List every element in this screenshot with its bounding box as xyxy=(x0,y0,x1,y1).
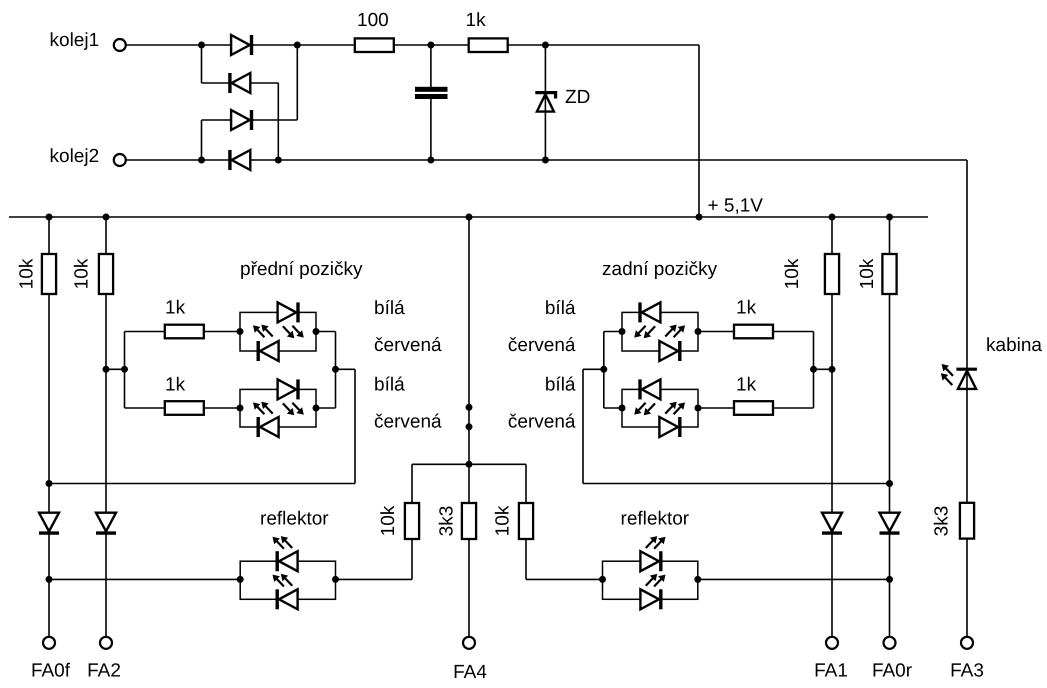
svg-text:červená: červená xyxy=(508,335,576,356)
wire +5V drop from kolej1 line xyxy=(698,45,700,217)
front group2 white LED arrows xyxy=(283,403,304,415)
svg-text:FA2: FA2 xyxy=(87,661,121,682)
wire bridge right vertical outer xyxy=(296,45,298,120)
rear position LED group 1 box xyxy=(622,312,698,351)
svg-text:1k: 1k xyxy=(466,10,487,31)
resistor 10k right of FA4 xyxy=(519,503,533,539)
resistor 10k FA2 pullup xyxy=(99,254,113,294)
wire left 10k bottom lead xyxy=(411,539,413,579)
node rail FA0r xyxy=(886,214,893,221)
node zener top xyxy=(542,42,549,49)
svg-text:ZD: ZD xyxy=(565,87,590,108)
wire front 1k feed vertical xyxy=(124,332,126,409)
diode at FA1 xyxy=(822,513,842,533)
wire bridge row3 xyxy=(202,119,298,121)
svg-text:1k: 1k xyxy=(736,375,757,396)
node bridge out bottom xyxy=(275,157,282,164)
svg-text:FA3: FA3 xyxy=(950,661,984,682)
terminal FA4 xyxy=(463,637,475,649)
wire right reflektor line out xyxy=(698,578,890,580)
bridge diode D3 xyxy=(231,110,251,130)
wire bridge left vertical lower xyxy=(201,120,203,160)
wire left reflektor line out xyxy=(336,578,413,580)
resistor 3k3 at FA4 xyxy=(462,503,476,539)
wire zener branch xyxy=(544,45,546,160)
node rail FA4 xyxy=(466,214,473,221)
front position LED group 2 box xyxy=(240,389,316,427)
wire rear left vertical xyxy=(603,332,605,409)
terminal FA3 xyxy=(961,637,973,649)
svg-text:bílá: bílá xyxy=(374,298,405,319)
wire capacitor lower lead xyxy=(430,99,432,160)
right reflektor LED top xyxy=(640,551,660,571)
wire rear row1 out xyxy=(698,331,814,333)
wire left 10k top lead xyxy=(411,464,413,503)
node zener bottom xyxy=(542,157,549,164)
terminal FA2 xyxy=(100,637,112,649)
svg-text:FA0f: FA0f xyxy=(31,661,71,682)
node rear group1 left xyxy=(619,328,626,335)
node right reflektor left xyxy=(599,576,606,583)
node rear return at FA0r xyxy=(886,480,893,487)
svg-text:bílá: bílá xyxy=(374,375,405,396)
node stub FA1 xyxy=(829,366,836,373)
wire rear stub out xyxy=(583,368,604,370)
rear group1 white LED arrows xyxy=(634,326,655,339)
front red LED row1 xyxy=(258,341,278,361)
wire rear group2 in xyxy=(604,407,622,409)
svg-text:červená: červená xyxy=(374,335,442,356)
wire +5,1V rail xyxy=(9,216,928,218)
right reflektor LED bottom xyxy=(640,589,660,609)
svg-text:10k: 10k xyxy=(72,258,93,289)
node rail supply in xyxy=(696,214,703,221)
wire FA0r vertical xyxy=(889,217,891,637)
wire rear row2 out xyxy=(698,407,814,409)
resistor 100 xyxy=(355,38,394,52)
wire front group2 out xyxy=(316,407,336,409)
left reflektor LED bottom arrows xyxy=(273,574,293,587)
resistor 1k rear row1 xyxy=(734,325,773,339)
terminal FA0r xyxy=(884,637,896,649)
terminal kolej2 xyxy=(114,154,126,166)
rear group1 red LED arrows xyxy=(665,325,685,338)
svg-text:10k: 10k xyxy=(782,258,803,289)
capacitor C plate 2 xyxy=(415,94,448,99)
svg-text:10k: 10k xyxy=(857,258,878,289)
node reflektor line FA0f xyxy=(46,576,53,583)
node front right mid xyxy=(332,366,339,373)
wire FA0f vertical xyxy=(48,217,50,637)
wire bridge right vertical inner xyxy=(277,83,279,160)
svg-text:reflektor: reflektor xyxy=(260,509,329,530)
wire front return line xyxy=(49,483,355,485)
wire bridge left vertical upper xyxy=(201,45,203,83)
wire stub rear block to FA1 xyxy=(814,368,833,370)
front group2 red LED arrows xyxy=(253,402,273,415)
svg-text:3k3: 3k3 xyxy=(932,506,953,537)
node left reflektor right xyxy=(332,576,339,583)
svg-text:10k: 10k xyxy=(493,505,514,536)
svg-text:1k: 1k xyxy=(165,375,186,396)
bridge diode D2 xyxy=(230,73,250,93)
capacitor C plate 1 xyxy=(415,87,448,92)
resistor 10k FA0f pullup xyxy=(42,254,56,294)
node rear collect mid xyxy=(810,366,817,373)
zener diode ZD cathode bar xyxy=(535,93,555,99)
svg-text:+ 5,1V: + 5,1V xyxy=(708,196,764,217)
rear group2 red LED arrows xyxy=(665,402,685,415)
front position LED group 1 box xyxy=(240,312,316,351)
diode at FA0f xyxy=(39,513,59,533)
node cap bottom xyxy=(427,157,434,164)
wire right 10k top lead xyxy=(525,464,527,503)
left reflektor LED top arrows xyxy=(273,536,293,549)
svg-text:červená: červená xyxy=(508,412,576,433)
node cap top xyxy=(427,42,434,49)
kabina LED arrows xyxy=(941,364,953,385)
svg-text:kolej2: kolej2 xyxy=(50,146,100,167)
kabina LED triangle xyxy=(958,371,976,389)
svg-text:bílá: bílá xyxy=(545,298,576,319)
wire kabina branch vertical xyxy=(966,160,968,637)
node stub front feed xyxy=(121,366,128,373)
node rear left mid xyxy=(600,366,607,373)
wire FA4 vertical xyxy=(468,217,470,637)
wire front return vertical xyxy=(354,369,356,483)
node kolej1-bridge xyxy=(198,42,205,49)
node rail FA0f xyxy=(46,214,53,221)
right reflektor LED top arrows xyxy=(646,536,666,549)
rear white LED row2 xyxy=(640,379,660,399)
wire rear return vertical xyxy=(582,369,584,483)
diode at FA0r xyxy=(880,513,900,533)
node rear group2 right xyxy=(695,405,702,412)
node kolej2-bridge xyxy=(198,157,205,164)
rear red LED row2 xyxy=(659,417,679,437)
svg-text:1k: 1k xyxy=(736,298,757,319)
wire front row1 feed xyxy=(125,331,241,333)
wire front group1 out xyxy=(316,331,336,333)
node front group2 left xyxy=(237,405,244,412)
svg-text:FA4: FA4 xyxy=(453,662,487,683)
svg-text:3k3: 3k3 xyxy=(437,506,458,537)
bridge diode D1 xyxy=(231,35,251,55)
wire rear return line xyxy=(583,483,890,485)
left reflektor LED top xyxy=(277,551,297,571)
svg-text:1k: 1k xyxy=(165,298,186,319)
wire kolej1 line xyxy=(126,44,699,46)
terminal FA0f xyxy=(43,637,55,649)
resistor 1k front row2 xyxy=(165,401,204,415)
wire capacitor upper lead xyxy=(430,45,432,87)
rear group2 white LED arrows xyxy=(634,403,655,415)
resistor 10k FA0r pullup xyxy=(882,254,896,294)
diode at FA2 xyxy=(96,513,116,533)
left reflektor LED bottom xyxy=(277,589,297,609)
front white LED row1 xyxy=(278,302,298,322)
front group1 red LED arrows xyxy=(253,325,273,338)
right reflektor LED bottom arrows xyxy=(646,574,666,587)
front group1 white LED arrows xyxy=(283,326,304,339)
node left reflektor left xyxy=(237,576,244,583)
wire front row2 feed xyxy=(125,407,241,409)
wire kolej2 line xyxy=(126,159,967,161)
svg-text:reflektor: reflektor xyxy=(621,509,690,530)
bridge diode D4 xyxy=(230,150,250,170)
svg-text:červená: červená xyxy=(374,412,442,433)
svg-text:bílá: bílá xyxy=(545,375,576,396)
terminal kolej1 xyxy=(114,39,126,51)
kabina LED cathode bar xyxy=(956,368,977,371)
node right reflektor right xyxy=(694,576,701,583)
node front return at FA0f xyxy=(46,480,53,487)
wire bridge row2 xyxy=(202,82,279,84)
wire front stub out xyxy=(336,368,356,370)
front red LED row2 xyxy=(258,417,278,437)
wire rear 1k collect vertical xyxy=(813,332,815,409)
left reflektor LED group box xyxy=(240,561,335,599)
node stub FA2 xyxy=(103,366,110,373)
wire FA1 vertical xyxy=(831,217,833,637)
resistor 1k front row1 xyxy=(165,325,204,339)
wire front right vertical xyxy=(335,332,337,409)
node bridge out top xyxy=(294,42,301,49)
svg-text:100: 100 xyxy=(357,10,389,31)
resistor 10k FA1 pullup xyxy=(825,254,839,294)
rear white LED row1 xyxy=(640,302,660,322)
node rail FA1 xyxy=(829,214,836,221)
node rear group1 right xyxy=(695,328,702,335)
node front group1 right xyxy=(313,328,320,335)
terminal FA1 xyxy=(826,637,838,649)
node reflektor line FA0r xyxy=(886,576,893,583)
node front group2 right xyxy=(313,405,320,412)
svg-text:10k: 10k xyxy=(378,505,399,536)
node FA4 resistor bar xyxy=(466,461,473,468)
right reflektor LED group box xyxy=(603,561,698,599)
node FA4 lower xyxy=(466,423,473,430)
resistor 1k series xyxy=(469,38,508,52)
svg-text:FA1: FA1 xyxy=(814,661,848,682)
svg-text:kolej1: kolej1 xyxy=(50,30,100,51)
wire FA2 vertical xyxy=(105,217,107,637)
resistor 1k rear row2 xyxy=(734,401,773,415)
wire rear group1 in xyxy=(604,331,622,333)
node rail FA2 xyxy=(103,214,110,221)
svg-text:10k: 10k xyxy=(17,258,38,289)
wire left reflektor line in xyxy=(49,578,240,580)
wire right 10k bottom lead xyxy=(525,539,527,579)
svg-text:kabina: kabina xyxy=(986,335,1042,356)
rear position LED group 2 box xyxy=(622,389,698,427)
svg-text:zadní pozičky: zadní pozičky xyxy=(602,259,718,280)
rear red LED row1 xyxy=(659,341,679,361)
resistor 10k left of FA4 xyxy=(405,503,419,539)
svg-text:přední pozičky: přední pozičky xyxy=(240,259,363,280)
node front group1 left xyxy=(237,328,244,335)
svg-text:FA0r: FA0r xyxy=(872,661,913,682)
front white LED row2 xyxy=(278,379,298,399)
wire right reflektor line in xyxy=(526,578,603,580)
node rear group2 left xyxy=(619,405,626,412)
node FA4 upper xyxy=(466,404,473,411)
zener diode ZD triangle xyxy=(537,94,554,111)
wire bar to bottom resistors xyxy=(412,463,526,465)
resistor 3k3 kabina xyxy=(960,503,974,539)
wire stub FA2 to front block xyxy=(106,368,125,370)
